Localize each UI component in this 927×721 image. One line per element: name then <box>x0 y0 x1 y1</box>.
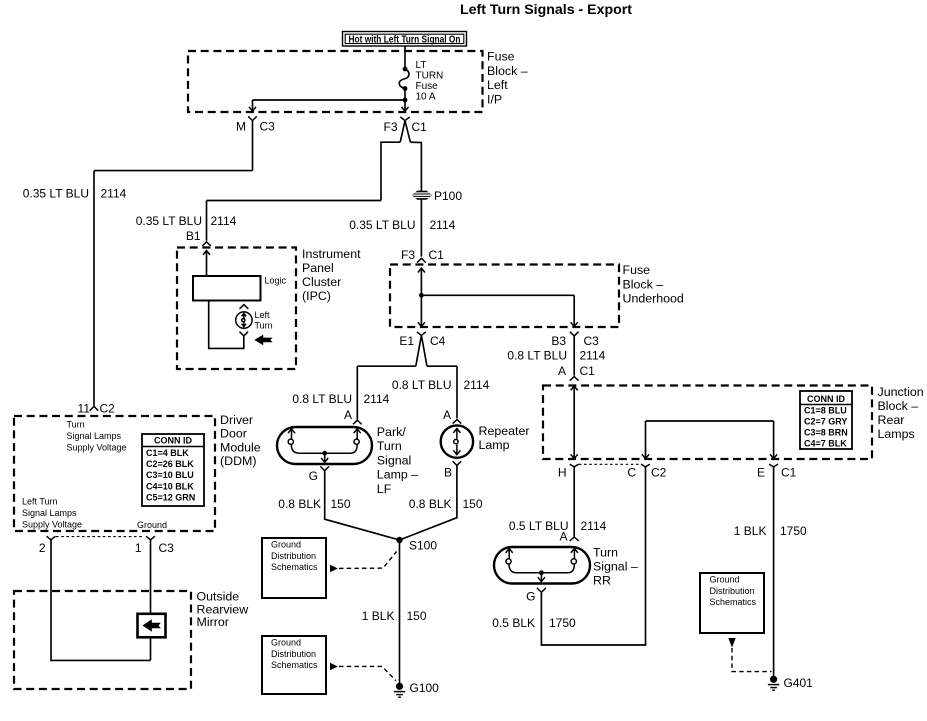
svg-text:C3=10 BLU: C3=10 BLU <box>146 470 194 480</box>
junction block label <box>878 385 924 441</box>
turn signal RR label <box>593 546 638 588</box>
black arrow marker IPC <box>254 335 272 346</box>
ground distribution schematics box 1 <box>262 538 326 598</box>
connector M C3 <box>236 116 275 170</box>
fuse value label <box>416 60 444 103</box>
wire repeater branch <box>427 366 457 418</box>
repeater lamp filament <box>453 429 460 455</box>
svg-text:A: A <box>558 364 566 378</box>
svg-text:C4=7 BLK: C4=7 BLK <box>804 438 847 448</box>
wire logic to indicator <box>209 301 244 349</box>
pin A repeater <box>443 408 461 424</box>
svg-text:0.35 LT BLU: 0.35 LT BLU <box>349 218 415 232</box>
wire E to G401 <box>773 467 775 678</box>
svg-text:0.8 LT BLU: 0.8 LT BLU <box>507 349 567 363</box>
wire pin 1 to mirror <box>150 540 152 614</box>
svg-text:Junction: Junction <box>878 385 924 399</box>
label 0.8 BLK 150 LF <box>278 497 351 511</box>
svg-text:Fuse: Fuse <box>487 50 515 64</box>
svg-text:Hot with Left Turn Signal On: Hot with Left Turn Signal On <box>349 33 461 45</box>
svg-text:Driver: Driver <box>220 413 253 427</box>
ground distribution schematics box 2 <box>262 636 326 694</box>
svg-text:Lamp: Lamp <box>479 438 510 452</box>
svg-text:Supply Voltage: Supply Voltage <box>67 443 127 453</box>
svg-text:Turn: Turn <box>255 321 273 331</box>
pin 2 DDM <box>39 536 56 555</box>
wire P100 to underhood <box>420 200 422 257</box>
svg-text:C4=10 BLK: C4=10 BLK <box>146 481 194 491</box>
svg-text:0.35 LT BLU: 0.35 LT BLU <box>136 214 202 228</box>
node underhood junction <box>419 293 424 298</box>
dashed reference to G100 <box>330 663 396 681</box>
label 0.8 LT BLU 2114 LF <box>292 392 389 406</box>
turn signal RR filaments <box>506 549 578 582</box>
wire mirror to loop <box>150 637 152 660</box>
svg-text:F3: F3 <box>383 120 397 134</box>
svg-text:Ground: Ground <box>137 520 167 530</box>
wire inside underhood horizontal <box>421 294 574 296</box>
wire IPC branch <box>207 201 382 241</box>
park/turn lamp LF filaments <box>288 429 361 463</box>
wire pin 2 to mirror loop <box>51 540 151 661</box>
svg-text:B1: B1 <box>186 229 201 243</box>
svg-text:C4: C4 <box>430 334 446 348</box>
svg-text:0.5 BLK: 0.5 BLK <box>492 616 535 630</box>
wire inside junction block H drop <box>571 386 578 459</box>
svg-text:Signal Lamps: Signal Lamps <box>22 508 77 518</box>
svg-text:150: 150 <box>407 609 427 623</box>
svg-text:2114: 2114 <box>580 349 606 363</box>
svg-text:0.35 LT BLU: 0.35 LT BLU <box>23 187 89 201</box>
pin A LF lamp <box>344 408 362 424</box>
fuse block left I/P box <box>188 51 483 112</box>
wire RR ground to C2 <box>541 467 645 645</box>
svg-text:1: 1 <box>135 541 142 555</box>
svg-text:0.8 BLK: 0.8 BLK <box>409 497 452 511</box>
svg-text:A: A <box>559 530 567 544</box>
svg-text:Rear: Rear <box>878 413 905 427</box>
svg-text:1 BLK: 1 BLK <box>734 524 767 538</box>
svg-text:Logic: Logic <box>265 276 287 286</box>
svg-text:C1=4 BLK: C1=4 BLK <box>146 448 189 458</box>
svg-text:Block –: Block – <box>878 399 919 413</box>
label 0.35 LT BLU 2114 mid <box>349 218 455 232</box>
connector F3 C1 splice fork <box>381 117 427 201</box>
inline connector P100 <box>412 189 462 203</box>
svg-text:(IPC): (IPC) <box>302 289 331 303</box>
svg-text:Schematics: Schematics <box>271 660 318 670</box>
svg-text:G: G <box>526 590 535 604</box>
wire inside IPC to logic <box>203 251 210 277</box>
repeater lamp label <box>479 424 530 452</box>
svg-text:10 A: 10 A <box>416 92 436 103</box>
svg-text:0.8 BLK: 0.8 BLK <box>278 497 321 511</box>
svg-text:C3: C3 <box>584 334 600 348</box>
svg-text:Door: Door <box>220 427 247 441</box>
svg-text:Supply Voltage: Supply Voltage <box>22 520 82 530</box>
svg-text:Signal Lamps: Signal Lamps <box>67 431 122 441</box>
DDM conn id table <box>142 434 204 506</box>
svg-text:(DDM): (DDM) <box>220 454 256 468</box>
repeater lamp body <box>441 425 473 457</box>
svg-text:LT: LT <box>416 60 427 71</box>
svg-text:C1: C1 <box>781 466 797 480</box>
svg-text:Distribution: Distribution <box>271 551 316 561</box>
connector C2 pin tie line <box>579 463 642 465</box>
svg-text:Distribution: Distribution <box>710 586 755 596</box>
svg-text:C3: C3 <box>159 541 175 555</box>
label 0.8 LT BLU 2114 rear <box>507 349 605 363</box>
svg-text:2114: 2114 <box>364 392 390 406</box>
svg-text:C1: C1 <box>429 248 445 262</box>
arrow to M C3 <box>249 100 256 111</box>
connector A C1 junction block <box>558 364 595 381</box>
svg-text:B3: B3 <box>551 334 566 348</box>
svg-text:C5=12 GRN: C5=12 GRN <box>146 493 195 503</box>
junction block rear lamps box <box>543 386 872 460</box>
svg-text:A: A <box>344 408 352 422</box>
svg-text:Schematics: Schematics <box>271 562 318 572</box>
indicator label left turn <box>255 310 273 331</box>
svg-text:E1: E1 <box>399 334 414 348</box>
svg-text:C2=26 BLK: C2=26 BLK <box>146 459 194 469</box>
svg-text:1 BLK: 1 BLK <box>362 609 395 623</box>
svg-text:11: 11 <box>78 402 91 416</box>
wire inside junction block C to E <box>642 421 777 459</box>
label 1 BLK 1750 <box>734 524 807 538</box>
svg-text:Block –: Block – <box>487 64 528 78</box>
fuse block underhood box <box>390 265 619 328</box>
driver door module box <box>14 416 215 531</box>
connector C3 pin tie line <box>56 536 144 538</box>
wire inside underhood right drop <box>571 295 578 326</box>
svg-text:F3: F3 <box>401 248 415 262</box>
svg-text:H: H <box>558 466 567 480</box>
DDM pin function label turn signal lamps supply voltage <box>67 420 127 453</box>
svg-text:C2: C2 <box>651 466 667 480</box>
svg-text:150: 150 <box>463 497 483 511</box>
svg-text:Block –: Block – <box>623 277 664 291</box>
pin B repeater <box>444 461 461 479</box>
label 0.8 BLK 150 repeater <box>409 497 483 511</box>
svg-text:CONN ID: CONN ID <box>154 436 193 446</box>
instrument panel cluster label <box>302 247 361 303</box>
continuation chevron above indicator <box>240 305 249 309</box>
turn signal lamp RR body <box>494 547 590 584</box>
connector B3 C3 <box>551 332 599 376</box>
label 0.8 LT BLU 2114 repeater <box>392 378 490 392</box>
svg-text:1750: 1750 <box>780 524 807 538</box>
svg-text:M: M <box>236 120 246 134</box>
junction block conn id table <box>800 391 852 449</box>
svg-text:G401: G401 <box>784 676 814 690</box>
svg-text:RR: RR <box>593 574 611 588</box>
svg-text:2114: 2114 <box>581 519 607 533</box>
svg-text:G: G <box>309 469 318 483</box>
svg-text:I/P: I/P <box>487 92 502 106</box>
svg-text:C1: C1 <box>580 364 596 378</box>
park/turn signal lamp LF body <box>277 427 372 464</box>
DDM pin function label left turn signal lamps supply voltage <box>22 497 82 530</box>
svg-text:P100: P100 <box>434 189 462 203</box>
wire S100 to G100 <box>399 540 401 685</box>
mirror turn signal indicator box <box>138 614 166 638</box>
park/turn signal lamp LF label <box>377 425 418 496</box>
svg-text:Left Turn: Left Turn <box>22 497 58 507</box>
svg-text:Fuse: Fuse <box>416 81 439 92</box>
svg-text:2114: 2114 <box>211 214 237 228</box>
connector 11 C2 DDM <box>78 402 116 416</box>
svg-text:G100: G100 <box>410 681 440 695</box>
svg-text:Lamp –: Lamp – <box>377 468 418 482</box>
svg-text:Ground: Ground <box>710 575 740 585</box>
svg-text:Park/: Park/ <box>377 425 406 439</box>
driver door module label <box>220 413 261 468</box>
wire hot feed to fuse <box>404 46 406 69</box>
label 0.5 LT BLU 2114 <box>509 519 607 533</box>
wire LF lamp branch <box>357 366 415 419</box>
svg-text:Turn: Turn <box>377 439 402 453</box>
wire inside underhood left <box>418 268 425 327</box>
svg-text:Mirror: Mirror <box>197 615 229 629</box>
svg-text:C1: C1 <box>412 120 428 134</box>
svg-text:Schematics: Schematics <box>710 597 757 607</box>
svg-text:LF: LF <box>377 482 392 496</box>
svg-text:0.8 LT BLU: 0.8 LT BLU <box>392 378 452 392</box>
svg-text:Turn: Turn <box>593 546 618 560</box>
indicator lamp left turn <box>236 312 252 328</box>
arrow to F3 C1 <box>402 100 409 111</box>
svg-text:C: C <box>627 466 636 480</box>
svg-text:Signal: Signal <box>377 453 411 467</box>
svg-text:B: B <box>444 466 452 480</box>
svg-text:Cluster: Cluster <box>302 275 341 289</box>
pin 1 C3 DDM <box>135 536 174 555</box>
svg-text:C3=8 BRN: C3=8 BRN <box>804 428 848 438</box>
svg-text:2114: 2114 <box>101 187 127 201</box>
svg-text:Ground: Ground <box>271 540 301 550</box>
connector F3 C1 underhood <box>401 248 444 263</box>
pin G RR lamp <box>526 588 546 604</box>
pin G LF lamp <box>309 466 329 483</box>
svg-text:S100: S100 <box>409 539 437 553</box>
svg-text:Module: Module <box>220 440 261 454</box>
svg-text:C1=8 BLU: C1=8 BLU <box>804 405 847 415</box>
svg-text:Fuse: Fuse <box>623 263 651 277</box>
connector B1 IPC <box>186 229 211 246</box>
wire repeater ground <box>400 466 457 541</box>
connector E1 C4 splice fork <box>399 332 445 366</box>
pin H junction block <box>558 464 579 479</box>
svg-text:A: A <box>443 408 451 422</box>
svg-text:2114: 2114 <box>464 378 490 392</box>
node fuse output junction <box>403 98 408 103</box>
instrument panel cluster box <box>177 248 296 370</box>
svg-text:1750: 1750 <box>549 616 576 630</box>
fuse block underhood label <box>623 263 684 306</box>
svg-text:150: 150 <box>331 497 351 511</box>
label 0.35 LT BLU 2114 IPC <box>136 214 237 228</box>
fuse block left I/P label <box>487 50 528 107</box>
svg-text:Instrument: Instrument <box>302 247 361 261</box>
wire H to RR lamp <box>573 467 575 537</box>
svg-text:0.8 LT BLU: 0.8 LT BLU <box>292 392 352 406</box>
svg-text:Left: Left <box>487 78 508 92</box>
svg-text:Distribution: Distribution <box>271 649 316 659</box>
svg-text:Panel: Panel <box>302 261 334 275</box>
node S100 <box>396 537 437 553</box>
hot feed label box <box>343 32 467 47</box>
dashed reference to S100 <box>330 552 397 573</box>
svg-text:C3: C3 <box>260 120 276 134</box>
svg-text:Lamps: Lamps <box>878 427 915 441</box>
ground distribution schematics box 3 <box>700 573 764 633</box>
ground G401 <box>768 676 813 691</box>
svg-text:Underhood: Underhood <box>623 292 684 306</box>
svg-text:Turn: Turn <box>67 420 85 430</box>
wire M branch to left side <box>94 171 253 406</box>
pin C C2 junction block <box>627 464 666 479</box>
svg-text:Ground: Ground <box>271 638 301 648</box>
svg-text:CONN ID: CONN ID <box>807 394 846 404</box>
connector chevron indicator <box>240 332 249 336</box>
wire LF lamp ground <box>325 471 400 540</box>
svg-text:Repeater: Repeater <box>479 424 530 438</box>
svg-text:C2: C2 <box>100 402 116 416</box>
label 1 BLK 150 <box>362 609 427 623</box>
svg-text:2: 2 <box>39 541 46 555</box>
pin E C1 junction block <box>757 464 797 479</box>
dashed reference to G401 <box>728 638 771 672</box>
pin A RR lamp <box>559 530 578 544</box>
svg-text:2114: 2114 <box>430 218 456 232</box>
svg-text:TURN: TURN <box>416 71 444 82</box>
svg-text:Left Turn Signals - Export: Left Turn Signals - Export <box>460 2 632 17</box>
wire fuse output bus <box>253 99 406 101</box>
svg-text:E: E <box>757 466 765 480</box>
fuse LT TURN 10 A <box>399 67 409 100</box>
logic module U1 <box>193 276 287 301</box>
label 0.35 LT BLU 2114 left <box>23 187 127 201</box>
svg-text:Left: Left <box>255 310 271 320</box>
svg-text:C2=7 GRY: C2=7 GRY <box>804 416 847 426</box>
label 0.5 BLK 1750 <box>492 616 576 630</box>
outside rearview mirror box <box>14 591 191 689</box>
svg-text:Signal –: Signal – <box>593 560 638 574</box>
ground G100 <box>394 681 439 697</box>
outside rearview mirror label <box>197 590 249 629</box>
